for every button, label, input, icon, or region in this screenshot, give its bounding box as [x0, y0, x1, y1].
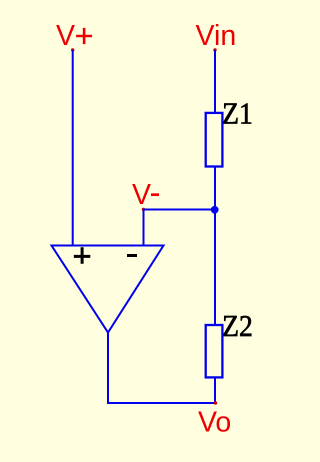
wire Z1 to Z2 — [214, 167, 216, 326]
svg-text:Z1: Z1 — [222, 97, 253, 131]
wire V- to op-amp inverting input — [143, 210, 145, 246]
pin dot V+ — [71, 48, 74, 51]
resistor Z1 — [206, 113, 223, 167]
op-amp plus input mark — [74, 247, 91, 263]
svg-text:Vo: Vo — [198, 407, 231, 439]
op-amp minus input mark — [127, 254, 137, 257]
wire op-amp output down — [107, 333, 109, 405]
wire V+ to op-amp noninverting input — [72, 50, 74, 245]
wire V- horizontal to junction — [144, 209, 216, 211]
wire Z2 to output node — [214, 377, 216, 403]
svg-text:V: V — [56, 20, 75, 52]
wire output horizontal to Vo — [107, 402, 215, 404]
op-amp U1 triangle — [52, 246, 164, 333]
svg-text:Z2: Z2 — [222, 309, 253, 343]
wire Vin to Z1 — [214, 50, 216, 113]
pin dot V- — [142, 208, 145, 211]
junction dot at V- node — [211, 206, 219, 214]
pin dot Vo — [214, 401, 217, 404]
pin dot Vin — [213, 48, 216, 51]
svg-text:V: V — [132, 179, 151, 211]
resistor Z2 — [206, 325, 223, 377]
svg-text:Vin: Vin — [196, 20, 237, 52]
